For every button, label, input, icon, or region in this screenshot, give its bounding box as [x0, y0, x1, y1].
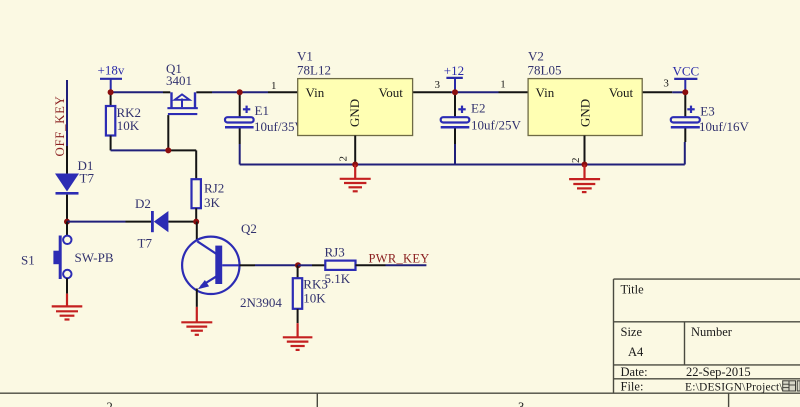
svg-text:T7: T7 [80, 171, 95, 186]
svg-text:10K: 10K [303, 291, 326, 306]
title block text Size / A4 / Number [621, 325, 733, 359]
grid reference 2 [107, 400, 113, 407]
svg-text:10uf/16V: 10uf/16V [699, 119, 749, 134]
resistor RK2 [106, 92, 141, 150]
svg-text:Vin: Vin [306, 85, 325, 100]
net label PWR_KEY [369, 252, 430, 266]
capacitor E1 10uf/35V [225, 92, 304, 164]
svg-text:3401: 3401 [166, 73, 192, 88]
svg-text:Vout: Vout [609, 85, 634, 100]
svg-text:Title: Title [621, 283, 645, 297]
ground below Q2 [181, 307, 212, 335]
node: E1 top junction [237, 89, 243, 95]
svg-text:GND: GND [577, 99, 592, 127]
svg-text:A4: A4 [628, 345, 644, 359]
svg-text:T7: T7 [138, 236, 153, 251]
svg-text:10uf/35V: 10uf/35V [254, 119, 304, 134]
svg-text:10uf/25V: 10uf/25V [471, 118, 521, 133]
svg-text:2: 2 [570, 158, 582, 164]
sheet border bottom line [0, 393, 800, 407]
svg-text:1: 1 [500, 78, 506, 90]
grid reference 3 [518, 400, 524, 407]
svg-text:E1: E1 [255, 103, 269, 118]
title block frame [614, 279, 800, 393]
power port VCC [673, 64, 700, 93]
svg-text:78L05: 78L05 [528, 62, 562, 77]
svg-text:E2: E2 [471, 101, 485, 116]
wire: Q1 gate down to gate net [167, 115, 169, 150]
svg-text:3: 3 [435, 79, 441, 91]
wire: junction to D2 cathode [67, 221, 151, 223]
svg-text:SW-PB: SW-PB [75, 250, 114, 265]
wire: OFF_KEY down to D1 [66, 80, 68, 174]
node: V1 GND junction [352, 162, 358, 168]
svg-text:S1: S1 [21, 253, 35, 268]
wire: main rail Q1 drain to V1 input [196, 91, 297, 93]
title block text File [621, 380, 800, 394]
svg-text:2N3904: 2N3904 [240, 295, 282, 310]
svg-text:Q2: Q2 [241, 221, 257, 236]
wire: main +18V rail left of Q1 [111, 91, 171, 93]
svg-text:2: 2 [107, 400, 113, 407]
svg-text:File:: File: [621, 380, 644, 394]
node: +12/E2 junction [452, 89, 458, 95]
svg-text:Number: Number [691, 325, 733, 339]
svg-text:VCC: VCC [673, 64, 700, 79]
ground below V2 [569, 165, 600, 193]
op-amp: regulator U V2 78L05 [500, 49, 669, 165]
svg-text:V2: V2 [528, 49, 544, 64]
svg-text:Vout: Vout [379, 85, 404, 100]
title block text Title [621, 283, 645, 297]
diode D2 (T7) [135, 196, 196, 251]
svg-text:5.1K: 5.1K [325, 271, 351, 286]
node: gate junction [165, 147, 171, 153]
capacitor E2 10uf/25V [441, 92, 522, 164]
svg-text:10K: 10K [117, 118, 140, 133]
svg-text:3K: 3K [204, 195, 221, 210]
svg-text:2: 2 [338, 156, 350, 162]
wire: RJ3 to PWR_KEY [356, 264, 427, 266]
ground below V1 [340, 165, 371, 192]
ground below RK3 [283, 323, 313, 350]
wire: ground rail [240, 164, 685, 166]
power port +12 [444, 63, 464, 92]
op-amp: regulator U V1 78L12 [271, 49, 441, 165]
transistor Q2 (2N3904) [182, 221, 282, 310]
svg-text:Vin: Vin [536, 85, 555, 100]
svg-text:Size: Size [621, 325, 643, 339]
wire: gate net horizontal [111, 150, 197, 179]
resistor RK3 [293, 265, 328, 323]
node: RJ2/D2/Q2 junction [193, 219, 199, 225]
wire: Q2 base to junction [240, 264, 299, 266]
wire: V2 output to VCC node [642, 91, 685, 93]
svg-text:78L12: 78L12 [297, 62, 331, 77]
net label OFF_KEY [53, 95, 67, 156]
node: +18v junction [108, 89, 114, 95]
svg-text:3: 3 [663, 78, 669, 90]
svg-text:3: 3 [518, 400, 524, 407]
title block text Date [621, 365, 751, 379]
switch S1 SW-PB [21, 222, 114, 294]
resistor RJ3 [298, 245, 356, 286]
node: V2 GND junction [582, 162, 588, 168]
svg-text:E:\DESIGN\Project\: E:\DESIGN\Project\ [685, 382, 783, 394]
resistor RJ2 [192, 179, 225, 221]
svg-text:1: 1 [271, 80, 277, 92]
node: base/RK3/RJ3 junction [295, 262, 301, 268]
svg-text:+18v: +18v [98, 63, 125, 78]
capacitor E3 10uf/16V [671, 92, 750, 164]
svg-text:GND: GND [347, 99, 362, 127]
svg-text:22-Sep-2015: 22-Sep-2015 [686, 365, 751, 379]
svg-text:PWR_KEY: PWR_KEY [369, 252, 430, 266]
svg-text:D2: D2 [135, 196, 151, 211]
svg-text:E3: E3 [700, 104, 714, 119]
wire: V1 output to V2 input [413, 91, 528, 93]
node: VCC/E3 junction [682, 89, 688, 95]
svg-text:RJ3: RJ3 [325, 245, 345, 260]
power port +18v [98, 63, 125, 93]
diode D1 (T7) [55, 158, 94, 222]
ground below S1 [52, 294, 83, 320]
svg-text:+12: +12 [444, 63, 464, 78]
svg-text:Date:: Date: [621, 365, 648, 379]
svg-text:OFF_KEY: OFF_KEY [53, 95, 67, 156]
node: D1/S1/D2 junction [64, 219, 70, 225]
transistor Q1 (3401 P-MOSFET) [166, 61, 198, 115]
svg-text:RJ2: RJ2 [204, 181, 224, 196]
svg-text:V1: V1 [297, 49, 313, 64]
